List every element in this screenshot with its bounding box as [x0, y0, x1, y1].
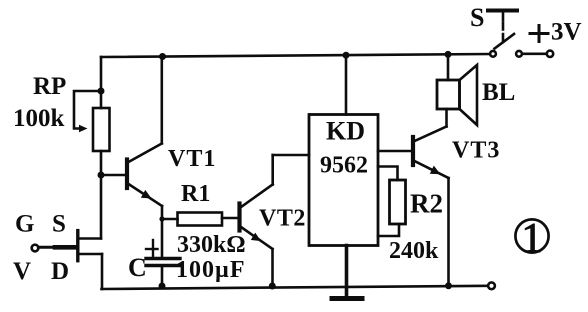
ground	[332, 296, 362, 301]
svg-text:R2: R2	[410, 189, 443, 219]
svg-text:V: V	[13, 258, 31, 285]
IC U1 KD9562	[309, 55, 378, 245]
figure number 1	[515, 216, 548, 262]
resistor R1	[159, 213, 237, 226]
switch S pushbutton	[488, 11, 553, 58]
svg-text:100k: 100k	[13, 105, 65, 132]
transistor VT2	[240, 155, 310, 286]
svg-text:S: S	[470, 3, 484, 32]
svg-text:VT1: VT1	[168, 146, 216, 172]
label +3V	[530, 19, 582, 46]
potentiometer RP	[74, 91, 110, 151]
svg-text:240k: 240k	[389, 238, 439, 264]
wire left vertical upper	[100, 57, 103, 108]
capacitor C	[146, 240, 180, 286]
resistor R2	[378, 167, 406, 237]
svg-text:C: C	[128, 253, 147, 282]
svg-text:9562: 9562	[320, 153, 368, 179]
svg-text:G: G	[15, 211, 34, 238]
transistor VT3	[378, 109, 449, 286]
node rail speaker junction	[445, 51, 452, 58]
svg-text:S: S	[52, 211, 66, 238]
svg-text:VT3: VT3	[452, 138, 500, 164]
svg-text:RP: RP	[33, 73, 66, 100]
svg-text:KD: KD	[326, 117, 365, 146]
svg-text:R1: R1	[181, 181, 210, 207]
node RP wiper junction	[98, 88, 105, 95]
FET touch sensor	[32, 231, 102, 289]
svg-text:VT2: VT2	[259, 206, 306, 232]
wire left vertical lower	[100, 151, 103, 239]
svg-text:D: D	[51, 258, 69, 285]
svg-text:100µF: 100µF	[176, 257, 246, 283]
svg-text:BL: BL	[482, 79, 515, 106]
speaker BL	[437, 54, 477, 125]
wire VT1 emitter down	[161, 206, 164, 257]
wire bottom rail	[102, 286, 489, 289]
wire top rail	[101, 54, 490, 57]
node VT3 emitter rail	[445, 282, 452, 289]
node VT2 emitter rail	[269, 283, 276, 290]
node rail VT1 collector	[159, 53, 166, 60]
svg-text:330kΩ: 330kΩ	[177, 232, 246, 258]
node C bottom rail	[159, 283, 166, 290]
terminal bottom right	[488, 282, 495, 289]
wire IC bottom to ground	[345, 246, 349, 297]
svg-text:3V: 3V	[551, 19, 582, 46]
node rail IC junction	[343, 52, 350, 59]
node VT1 base junction	[98, 172, 105, 179]
transistor VT1	[101, 57, 162, 207]
svg-text:1: 1	[522, 216, 543, 262]
